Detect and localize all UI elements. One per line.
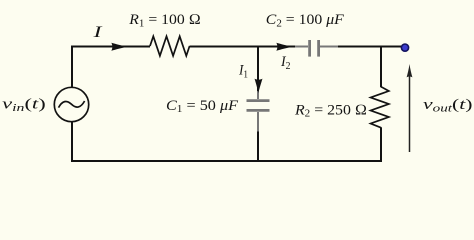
svg-text:vin(t): vin(t) xyxy=(2,97,46,115)
svg-text:I: I xyxy=(92,24,103,41)
